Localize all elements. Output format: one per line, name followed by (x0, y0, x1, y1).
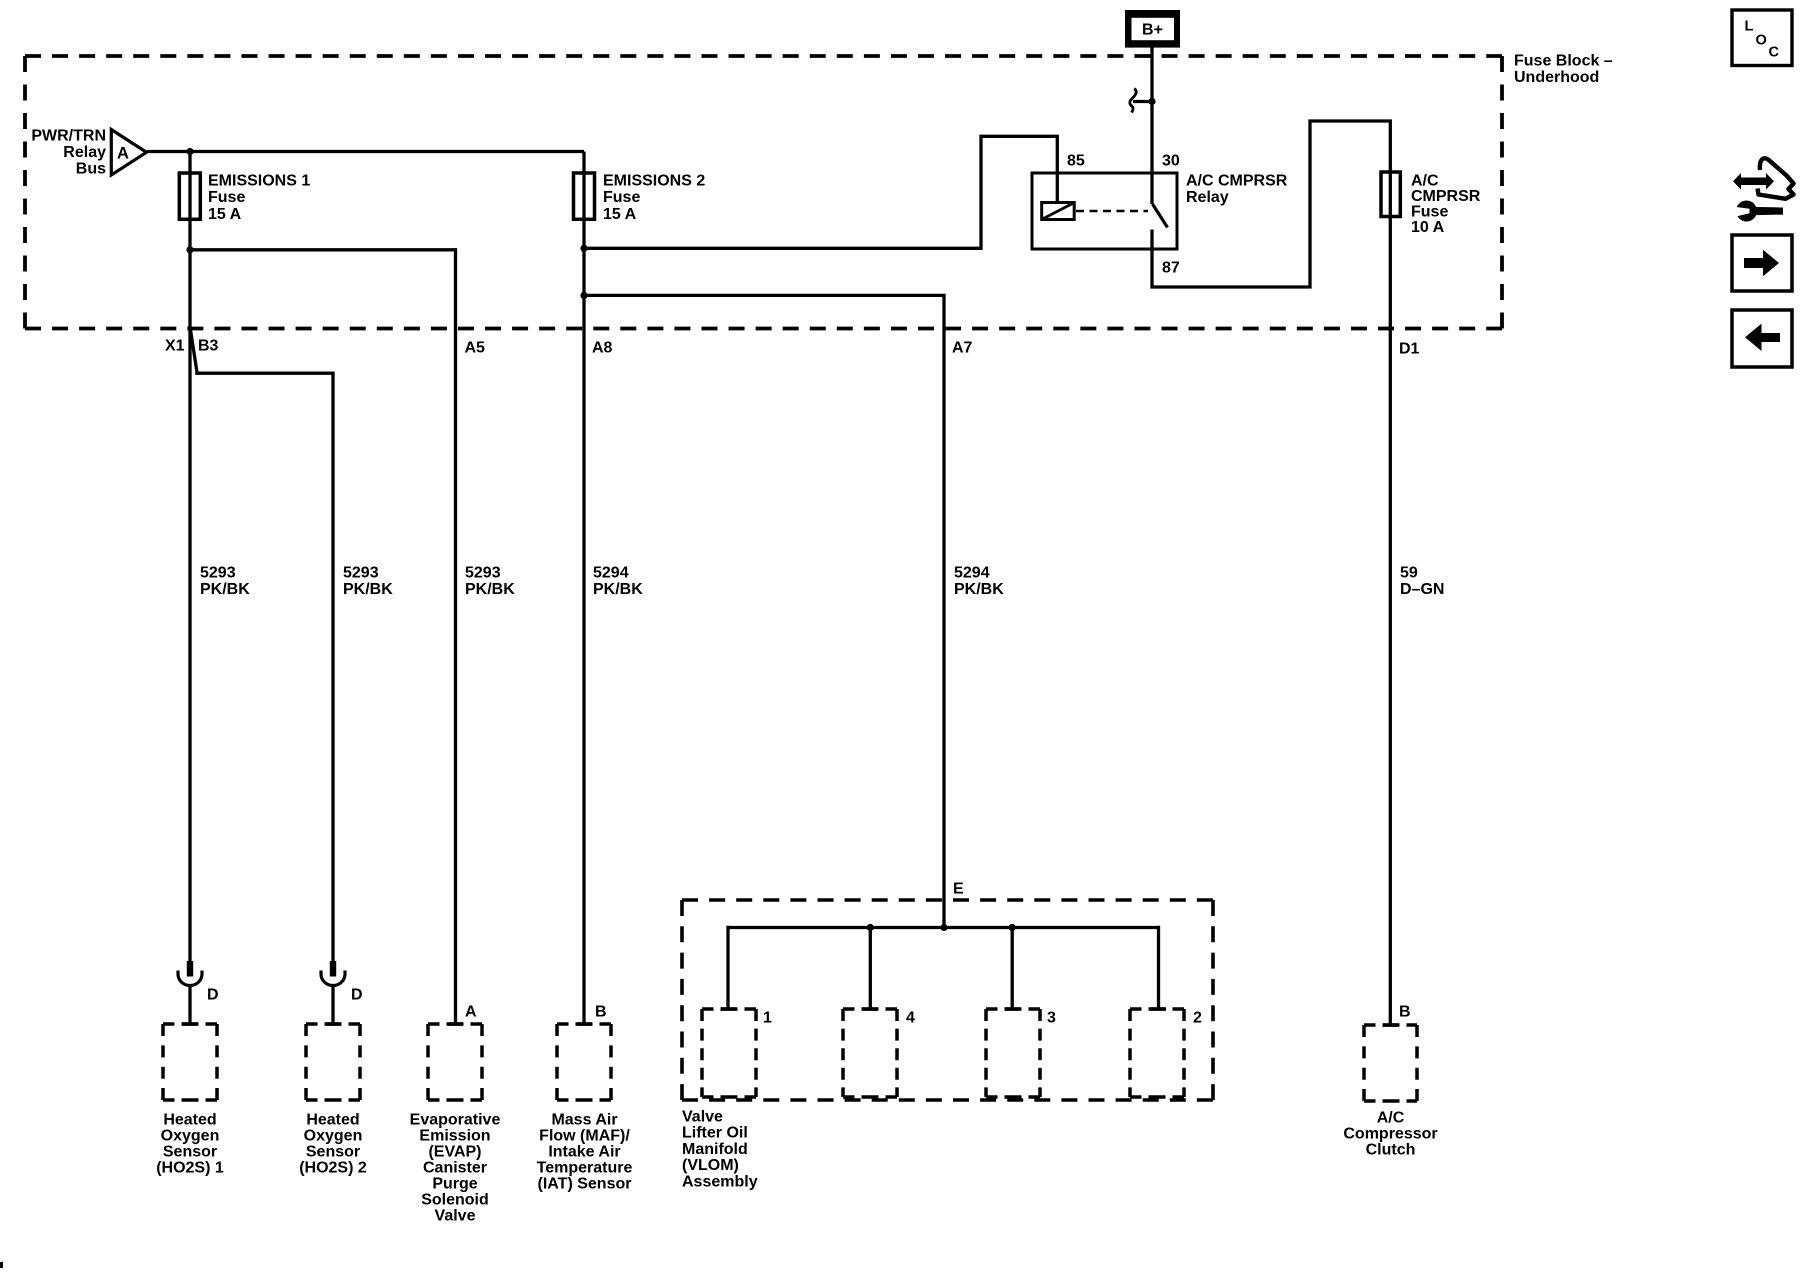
svg-text:Oxygen: Oxygen (161, 1127, 220, 1144)
svg-text:5293: 5293 (465, 564, 501, 581)
svg-text:85: 85 (1067, 152, 1085, 169)
svg-text:Relay: Relay (1186, 189, 1229, 206)
svg-text:Mass Air: Mass Air (551, 1111, 617, 1128)
svg-text:A/C CMPRSR: A/C CMPRSR (1186, 172, 1288, 189)
svg-text:Heated: Heated (163, 1111, 216, 1128)
svg-text:EMISSIONS 2: EMISSIONS 2 (603, 172, 705, 189)
svg-text:D1: D1 (1399, 340, 1420, 357)
svg-text:PWR/TRN: PWR/TRN (31, 127, 106, 144)
svg-text:Sensor: Sensor (163, 1143, 217, 1160)
svg-text:X1: X1 (165, 337, 185, 354)
svg-text:(EVAP): (EVAP) (428, 1143, 481, 1160)
svg-text:Heated: Heated (306, 1111, 359, 1128)
svg-text:(VLOM): (VLOM) (682, 1157, 739, 1174)
svg-text:Solenoid: Solenoid (421, 1191, 489, 1208)
svg-text:5293: 5293 (200, 564, 236, 581)
svg-text:B3: B3 (198, 337, 219, 354)
svg-text:A/C: A/C (1377, 1109, 1405, 1126)
svg-text:D: D (207, 986, 219, 1003)
svg-text:Fuse: Fuse (1411, 203, 1448, 220)
svg-text:Purge: Purge (432, 1175, 477, 1192)
svg-text:Oxygen: Oxygen (304, 1127, 363, 1144)
svg-text:Bus: Bus (76, 160, 106, 177)
svg-text:Fuse Block –: Fuse Block – (1514, 52, 1613, 69)
svg-text:Fuse: Fuse (603, 189, 640, 206)
svg-text:PK/BK: PK/BK (465, 581, 515, 598)
svg-text:O: O (1756, 33, 1767, 49)
svg-text:A: A (117, 145, 129, 163)
svg-text:A8: A8 (592, 340, 613, 357)
svg-text:PK/BK: PK/BK (593, 581, 643, 598)
svg-text:15 A: 15 A (603, 206, 637, 223)
svg-text:Temperature: Temperature (537, 1159, 633, 1176)
svg-text:10 A: 10 A (1411, 219, 1445, 236)
svg-text:Lifter Oil: Lifter Oil (682, 1125, 748, 1142)
svg-text:4: 4 (906, 1009, 915, 1026)
svg-text:5293: 5293 (343, 564, 379, 581)
svg-text:5294: 5294 (593, 564, 629, 581)
svg-text:B+: B+ (1142, 22, 1163, 39)
svg-text:PK/BK: PK/BK (954, 581, 1004, 598)
svg-text:(HO2S) 2: (HO2S) 2 (299, 1159, 367, 1176)
svg-text:3: 3 (1047, 1009, 1056, 1026)
svg-text:Fuse: Fuse (208, 189, 245, 206)
svg-text:Intake Air: Intake Air (548, 1143, 620, 1160)
svg-text:Underhood: Underhood (1514, 69, 1599, 86)
svg-text:E: E (953, 880, 964, 897)
svg-text:L: L (1745, 19, 1754, 35)
svg-text:Canister: Canister (423, 1159, 487, 1176)
svg-text:D–GN: D–GN (1400, 581, 1444, 598)
svg-text:Emission: Emission (419, 1127, 490, 1144)
svg-text:D: D (351, 986, 363, 1003)
svg-text:A: A (465, 1003, 477, 1020)
svg-text:B: B (1399, 1003, 1411, 1020)
svg-text:Valve: Valve (435, 1207, 476, 1224)
svg-text:Relay: Relay (63, 144, 106, 161)
svg-text:Sensor: Sensor (306, 1143, 360, 1160)
svg-text:C: C (1769, 45, 1780, 61)
svg-text:Assembly: Assembly (682, 1174, 758, 1191)
svg-text:B: B (595, 1003, 607, 1020)
svg-text:A5: A5 (465, 340, 486, 357)
svg-text:59: 59 (1400, 564, 1418, 581)
svg-text:Manifold: Manifold (682, 1141, 748, 1158)
svg-text:Clutch: Clutch (1366, 1141, 1416, 1158)
svg-text:EMISSIONS 1: EMISSIONS 1 (208, 172, 310, 189)
svg-text:2: 2 (1193, 1009, 1202, 1026)
svg-text:A7: A7 (952, 339, 973, 356)
svg-text:Compressor: Compressor (1343, 1125, 1437, 1142)
svg-text:Flow (MAF)/: Flow (MAF)/ (539, 1127, 630, 1144)
svg-text:CMPRSR: CMPRSR (1411, 188, 1481, 205)
svg-text:Valve: Valve (682, 1108, 723, 1125)
svg-text:87: 87 (1162, 259, 1180, 276)
svg-text:PK/BK: PK/BK (200, 581, 250, 598)
svg-text:1: 1 (763, 1009, 772, 1026)
svg-text:(IAT) Sensor: (IAT) Sensor (538, 1175, 632, 1192)
svg-text:A/C: A/C (1411, 172, 1439, 189)
svg-text:Evaporative: Evaporative (410, 1111, 501, 1128)
svg-text:30: 30 (1162, 152, 1180, 169)
svg-text:5294: 5294 (954, 564, 990, 581)
svg-text:15 A: 15 A (208, 206, 242, 223)
svg-text:(HO2S) 1: (HO2S) 1 (156, 1159, 224, 1176)
svg-text:PK/BK: PK/BK (343, 581, 393, 598)
